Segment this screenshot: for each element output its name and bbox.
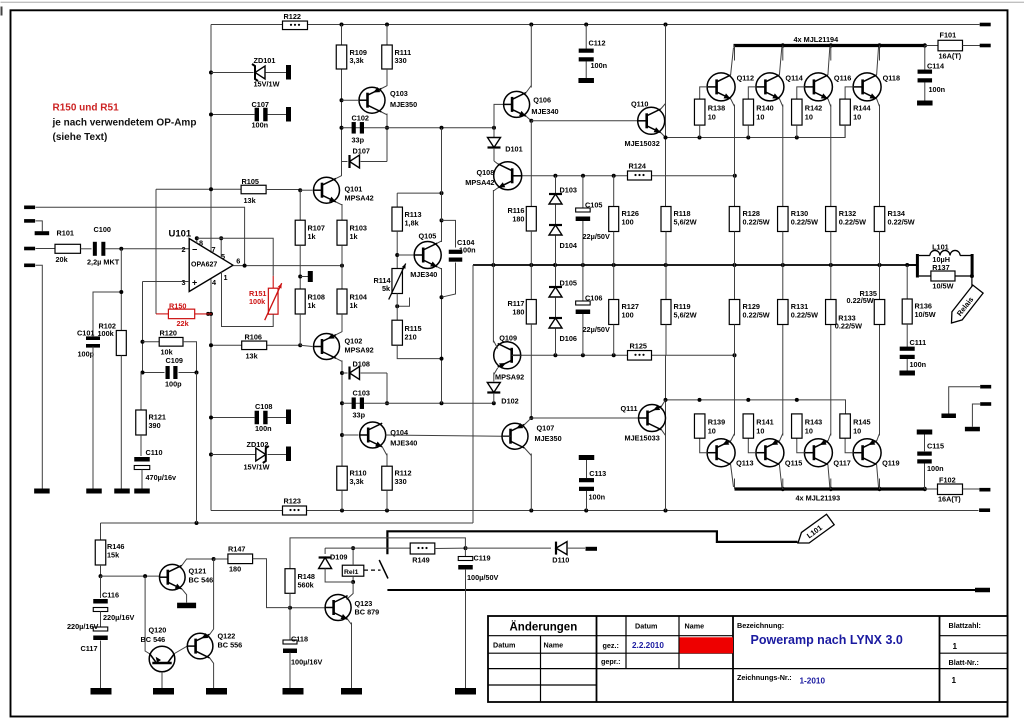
svg-text:10: 10	[756, 427, 764, 436]
capacitor C104	[442, 220, 456, 247]
wire Q102 base	[300, 345, 312, 346]
wire stub2 to ground link	[36, 221, 43, 231]
svg-text:je nach verwendetem OP-Amp: je nach verwendetem OP-Amp	[52, 118, 197, 129]
wire Q115 collector to bus	[779, 465, 781, 488]
svg-text:1k: 1k	[350, 301, 359, 310]
svg-text:390: 390	[149, 421, 161, 430]
wire C112 to ground bar	[585, 62, 587, 79]
svg-text:0.22/5W: 0.22/5W	[791, 311, 818, 320]
node base bus top junctions	[698, 136, 702, 140]
svg-text:C100: C100	[94, 225, 111, 234]
node rail taps bottom	[340, 509, 344, 513]
wire Q114 base	[748, 87, 756, 99]
capacitor C114	[924, 46, 926, 70]
svg-text:Bezeichnung:: Bezeichnung:	[737, 621, 784, 630]
svg-text:Q122: Q122	[218, 632, 236, 641]
wire relay box top speaker line	[387, 531, 797, 554]
wire C111 to ground	[906, 359, 908, 371]
svg-text:13k: 13k	[246, 352, 259, 361]
diode D103	[555, 176, 557, 194]
transistor Q122 BC556	[187, 633, 213, 659]
trimmer R151 red	[272, 276, 274, 288]
transistor Q108 MPSA42	[494, 162, 522, 190]
wire sense1 to ground	[949, 387, 981, 414]
transistor Q102 MPSA92	[314, 334, 340, 360]
wire bus to F101	[925, 45, 938, 47]
wire Q112 base	[700, 87, 708, 99]
svg-text:D105: D105	[560, 279, 577, 288]
resistor R139	[694, 414, 705, 438]
wire C118 to ground	[289, 653, 291, 689]
svg-text:C101: C101	[77, 329, 94, 338]
capacitor C117 electrolytic	[93, 627, 108, 631]
wire R111 column	[386, 25, 388, 46]
svg-text:Q114: Q114	[785, 74, 803, 83]
wire Q101 collector up	[336, 176, 342, 179]
svg-text:ZD102: ZD102	[247, 440, 269, 449]
resistor R124	[628, 171, 652, 180]
wire R140 to base bus	[747, 125, 749, 137]
wire R116 to output bus	[530, 231, 532, 265]
capacitor C106 electrolytic	[582, 265, 584, 304]
wire Q123 base	[290, 607, 325, 609]
svg-text:OPA627: OPA627	[191, 261, 217, 268]
resistor R144	[840, 99, 851, 125]
wire Q113 base	[700, 438, 708, 453]
svg-text:20k: 20k	[56, 255, 69, 264]
ground bar sense2	[965, 427, 980, 432]
transistor Q114 MJL21194	[756, 73, 784, 101]
wire C119 down to ground	[465, 569, 467, 688]
svg-text:C113: C113	[589, 469, 606, 478]
wire R107 to R108	[299, 245, 301, 289]
svg-text:Q101: Q101	[345, 185, 363, 194]
ground bar C110	[134, 489, 150, 494]
svg-text:D107: D107	[353, 147, 370, 156]
diode D109	[324, 548, 326, 554]
capacitor C112	[585, 25, 587, 49]
wire C103 line	[342, 402, 494, 404]
capacitor C108	[255, 411, 259, 425]
resistor R131	[782, 265, 784, 300]
wire D109 top line	[325, 547, 410, 549]
capacitor C101	[86, 336, 100, 340]
svg-text:C119: C119	[474, 554, 491, 563]
wire Q119 collector to bus	[877, 465, 879, 488]
resistor R133	[830, 265, 832, 300]
svg-text:gepr.:: gepr.:	[601, 657, 621, 666]
terminal input stub 3	[24, 247, 35, 251]
resistor R142	[792, 99, 803, 125]
svg-text:560k: 560k	[298, 581, 315, 590]
wire R118 to bus	[665, 232, 667, 266]
ground bar Q120	[153, 688, 174, 695]
wire driver vertical x665	[665, 138, 667, 176]
wire negative thick bus 4x MJL21193	[735, 487, 925, 490]
wire R138 to base bus	[699, 125, 701, 137]
wire R128 to output bus	[734, 232, 736, 266]
resistor R132	[826, 207, 837, 232]
wire R102 to ground	[120, 356, 122, 489]
svg-text:1-2010: 1-2010	[800, 677, 826, 686]
transistor Q112 MJL21194	[707, 73, 735, 101]
svg-text:0.22/5W: 0.22/5W	[743, 311, 770, 320]
wire R146 to Q121 base	[100, 565, 102, 576]
wire Q104 base	[342, 434, 359, 436]
wire D101 to Q108 collector	[493, 148, 495, 161]
wire opamp pin3 input	[143, 281, 190, 283]
svg-text:F101: F101	[940, 31, 957, 40]
wire C114 to ground bar	[924, 83, 926, 101]
title block vertical dividers	[596, 616, 598, 702]
svg-text:Datum: Datum	[493, 641, 515, 650]
svg-text:100n: 100n	[255, 424, 272, 433]
net flag L101	[794, 514, 834, 548]
resistor R145	[840, 414, 851, 438]
svg-text:10: 10	[853, 427, 861, 436]
wire Q116 collector to bus	[828, 48, 830, 76]
transistor Q119 MJL21193	[853, 439, 881, 467]
svg-text:D109: D109	[330, 553, 347, 562]
svg-text:Blatt-Nr.:: Blatt-Nr.:	[949, 658, 979, 667]
wire ZD102 line	[209, 453, 213, 457]
resistor R130	[778, 207, 789, 232]
svg-text:R150 und R51: R150 und R51	[53, 103, 120, 114]
svg-text:−: −	[192, 245, 197, 255]
svg-text:10: 10	[708, 113, 716, 122]
resistor R108	[295, 289, 305, 314]
wire Q123 emitter	[348, 619, 352, 624]
wire Q117 emitter up	[828, 434, 831, 442]
wire D108 right down to C103 line	[386, 373, 388, 403]
capacitor C107	[255, 108, 259, 122]
node bias line top junctions	[553, 174, 557, 178]
wire D103 to D104	[555, 205, 557, 225]
ground bar sense1	[941, 414, 956, 419]
svg-text:100k: 100k	[249, 297, 266, 306]
wire Q103 collector down	[382, 112, 388, 115]
svg-text:Q115: Q115	[785, 459, 802, 468]
resistor R102	[116, 331, 126, 356]
wire R114 to R115	[396, 294, 398, 321]
diode D102	[487, 383, 500, 393]
diode D105	[555, 265, 557, 287]
ground bar col1	[34, 489, 50, 494]
trimmer R114	[392, 269, 403, 294]
wire Q107 base	[503, 435, 511, 437]
svg-text:16A(T): 16A(T)	[938, 495, 961, 504]
svg-text:MPSA92: MPSA92	[345, 346, 374, 355]
svg-text:C114: C114	[927, 62, 945, 71]
resistor R138	[694, 99, 705, 125]
resistor R134	[874, 207, 885, 232]
capacitor C115	[917, 430, 933, 435]
svg-text:C118: C118	[291, 635, 308, 644]
svg-text:D106: D106	[560, 334, 577, 343]
terminal stub sense1	[980, 385, 991, 389]
diode D106	[549, 318, 562, 328]
wire pin5 stub	[220, 238, 222, 258]
wire Q112 emitter down	[731, 99, 735, 107]
wire Q110 emitter	[661, 133, 666, 138]
capacitor C110 electrolytic	[134, 457, 150, 462]
svg-text:3,3k: 3,3k	[350, 477, 365, 486]
svg-text:15k: 15k	[107, 551, 120, 560]
svg-text:1k: 1k	[308, 232, 317, 241]
diode D107	[342, 161, 348, 163]
terminal stub F101	[980, 44, 991, 48]
svg-text:C108: C108	[255, 402, 272, 411]
wire opamp output	[233, 265, 342, 267]
resistor R127	[613, 265, 615, 300]
resistor R112	[382, 466, 393, 490]
svg-text:100n: 100n	[459, 246, 476, 255]
diode D108	[342, 372, 348, 374]
svg-text:MJE340: MJE340	[410, 270, 437, 279]
svg-text:Q120: Q120	[149, 626, 167, 635]
svg-text:22µ/50V: 22µ/50V	[583, 325, 610, 334]
svg-text:4x MJL21193: 4x MJL21193	[796, 494, 841, 503]
svg-text:5k: 5k	[382, 284, 391, 293]
wire speaker bottom line	[387, 589, 975, 591]
ground bar Q121	[177, 603, 196, 609]
scan artifact top edge	[1, 2, 1024, 3]
wire D110 line	[466, 547, 552, 549]
svg-text:100n: 100n	[589, 493, 606, 502]
svg-text:1,8k: 1,8k	[405, 219, 420, 228]
node output to R103 R104 midpoint	[340, 264, 344, 268]
ground bar C112	[578, 78, 594, 83]
terminal stub -rail	[979, 508, 990, 512]
svg-text:C115: C115	[927, 442, 944, 451]
wire R104 to Q102 emitter	[341, 314, 343, 332]
transistor Q107 MJE350	[502, 423, 528, 449]
wire Q120 collector riser	[145, 576, 150, 654]
svg-text:220µ/16V: 220µ/16V	[103, 613, 135, 622]
svg-text:220µ/16V: 220µ/16V	[67, 622, 99, 631]
svg-text:100n: 100n	[929, 85, 946, 94]
resistor R122	[211, 24, 283, 26]
wire C113 to rail	[586, 491, 588, 511]
svg-text:D108: D108	[353, 360, 370, 369]
svg-text:C109: C109	[166, 356, 183, 365]
svg-text:100p: 100p	[78, 350, 95, 359]
wire Q101 emitter down	[336, 202, 342, 205]
capacitor C109	[143, 372, 165, 374]
resistor R101	[55, 244, 81, 253]
transistor Q123 BC879	[325, 595, 351, 621]
wire D110 to stub	[567, 547, 585, 549]
wire R106 line	[211, 344, 300, 346]
svg-text:2.2.2010: 2.2.2010	[632, 641, 664, 650]
wire R105 to Q101 base	[266, 189, 300, 191]
wire Q120 to Q122 base	[175, 646, 188, 653]
wire -supply rail	[212, 510, 979, 512]
svg-text:Q105: Q105	[419, 232, 437, 241]
resistor R119	[665, 265, 667, 300]
wire R150 to offset node	[195, 313, 212, 315]
svg-text:Q121: Q121	[189, 567, 207, 576]
ground bar Q122	[206, 688, 227, 695]
wire Q118 collector to bus	[877, 48, 879, 76]
wire C100 to opamp pin2	[105, 248, 189, 250]
svg-text:R139: R139	[708, 418, 725, 427]
svg-text:0.22/5W: 0.22/5W	[847, 296, 874, 305]
svg-text:R106: R106	[245, 333, 262, 342]
svg-text:gez.:: gez.:	[603, 641, 619, 650]
wire R134 to output bus	[879, 232, 881, 266]
wire C115 to bus	[924, 464, 926, 490]
node thick bus bottom junctions	[781, 487, 785, 491]
wire Q115 base	[748, 438, 756, 453]
resistor R121	[140, 373, 142, 411]
svg-text:Q109: Q109	[499, 334, 517, 343]
wire Q119 base	[845, 438, 854, 453]
wire C116 column	[100, 576, 102, 598]
svg-text:1: 1	[952, 676, 957, 685]
svg-text:BC 556: BC 556	[218, 641, 243, 650]
dashed link Rel1 to contact	[364, 569, 381, 571]
svg-text:R138: R138	[708, 104, 725, 113]
svg-text:Q112: Q112	[737, 74, 754, 83]
svg-text:Q106: Q106	[533, 96, 551, 105]
terminal input stub 2	[24, 219, 35, 223]
svg-text:BC 546: BC 546	[189, 576, 214, 585]
transistor Q116 MJL21194	[804, 73, 832, 101]
wire Q112 collector to bus	[731, 48, 734, 76]
terminal input stub 1	[24, 206, 35, 210]
wire Q122 emitter down	[210, 658, 214, 688]
wire Q121 to R147	[214, 558, 228, 560]
terminal stub sense2	[980, 402, 991, 406]
svg-text:Datum: Datum	[635, 622, 657, 631]
wire R101 to C100	[81, 248, 92, 250]
svg-text:2,2µ MKT: 2,2µ MKT	[87, 258, 120, 267]
resistor R110	[337, 466, 348, 490]
svg-text:0.22/5W: 0.22/5W	[835, 322, 862, 331]
svg-text:Q107: Q107	[537, 424, 555, 433]
svg-text:330: 330	[395, 56, 407, 65]
svg-text:3: 3	[182, 278, 186, 287]
svg-text:MJE350: MJE350	[390, 100, 417, 109]
wire Q110 collector	[661, 104, 666, 110]
relay coil box Rel1	[342, 565, 364, 576]
svg-text:C103: C103	[353, 389, 370, 398]
svg-text:BC 546: BC 546	[141, 635, 166, 644]
capacitor C111	[900, 347, 915, 351]
wire Q111 emitter up	[662, 400, 666, 406]
svg-text:Poweramp nach LYNX 3.0: Poweramp nach LYNX 3.0	[751, 633, 903, 647]
svg-text:15V/1W: 15V/1W	[254, 80, 280, 89]
svg-text:Q108: Q108	[476, 168, 494, 177]
wire R108 to Q102 base node	[299, 314, 301, 345]
wire output bus	[473, 264, 917, 266]
terminal stub C108	[286, 410, 291, 425]
wire C101 to ground	[92, 347, 94, 489]
svg-text:R101: R101	[57, 229, 74, 238]
transistor Q104 MJE340	[360, 422, 386, 448]
wire Q111 collector down	[662, 430, 666, 436]
svg-text:R143: R143	[805, 418, 822, 427]
svg-text:16A(T): 16A(T)	[939, 52, 962, 61]
wire Rel1 bottom	[352, 576, 354, 582]
wire pin3 column down	[142, 282, 144, 373]
wire Q121 collector	[182, 559, 214, 566]
wire Q105 collector up	[437, 241, 441, 243]
wire Q121 base line	[101, 575, 160, 577]
svg-text:Rel1: Rel1	[344, 569, 359, 576]
transistor Q105 MJE340	[414, 242, 441, 269]
svg-text:MJE15032: MJE15032	[625, 139, 660, 148]
ground bar col3	[114, 489, 130, 494]
svg-text:D102: D102	[501, 397, 518, 406]
wire Q109 collector down	[494, 368, 498, 375]
svg-text:R140: R140	[756, 104, 773, 113]
svg-text:Name: Name	[544, 641, 564, 650]
svg-text:6: 6	[236, 257, 240, 266]
ground bar col2	[86, 489, 102, 494]
switch relay contact	[379, 560, 388, 579]
svg-text:1: 1	[953, 642, 958, 651]
wire R105-R150 left link vertical	[155, 189, 157, 314]
svg-text:10/5W: 10/5W	[915, 310, 936, 319]
transistor Q113 MJL21193	[707, 439, 735, 467]
svg-text:Blattzahl:: Blattzahl:	[949, 621, 981, 630]
svg-text:0.22/5W: 0.22/5W	[839, 218, 866, 227]
wire sense2 to ground	[972, 404, 980, 427]
transistor Q111 MJE15033	[639, 405, 666, 432]
wire Q107 to Q111 base line	[531, 417, 638, 419]
terminal stub ZD101	[286, 65, 291, 80]
wire Q103 base	[342, 99, 360, 101]
wire stub4 down to ground	[36, 265, 43, 488]
svg-text:C112: C112	[589, 39, 606, 48]
wire Q113 collector to bus	[731, 465, 734, 488]
svg-text:R124: R124	[629, 162, 647, 171]
wire F102 to stub	[963, 488, 980, 490]
wire R102 column	[120, 249, 122, 331]
wire Q114 collector to bus	[779, 48, 781, 76]
svg-text:10: 10	[805, 427, 813, 436]
wire Q113 emitter up	[731, 434, 735, 442]
svg-text:0.22/5W: 0.22/5W	[743, 218, 770, 227]
resistor R109	[336, 45, 347, 69]
wire C110 to ground	[141, 470, 143, 489]
wire Q101 base	[300, 189, 312, 191]
svg-text:10: 10	[853, 113, 861, 122]
wire Q105 emitter down	[437, 267, 441, 269]
svg-text:MJE340: MJE340	[390, 439, 417, 448]
svg-text:D101: D101	[505, 145, 522, 154]
wire Q104 collector to Q107 base	[386, 435, 503, 436]
svg-text:22µ/50V: 22µ/50V	[583, 232, 610, 241]
ground bar C118	[283, 688, 304, 695]
wire R112 to rail	[386, 490, 388, 510]
svg-text:R123: R123	[284, 497, 301, 506]
wire Q102 collector down	[336, 358, 342, 361]
svg-text:100: 100	[622, 218, 634, 227]
capacitor C118 electrolytic	[289, 608, 291, 641]
wire R111 to Q103 emitter	[386, 69, 388, 86]
svg-text:1k: 1k	[350, 232, 359, 241]
wire R121 to C110	[140, 435, 142, 456]
resistor R125	[628, 351, 652, 361]
wire zener supply vertical	[210, 25, 212, 253]
resistor R143	[792, 414, 803, 438]
transistor Q115 MJL21193	[756, 439, 784, 467]
wire R113 top line	[397, 192, 441, 194]
inductor block right bar	[971, 254, 974, 278]
